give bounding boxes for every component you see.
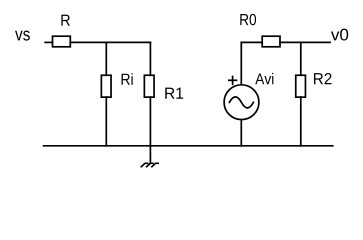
ground stem xyxy=(149,146,151,164)
label R xyxy=(61,15,70,26)
wire R2 bottom xyxy=(300,97,302,146)
wire R0 to v0 xyxy=(280,41,330,43)
wire R1 bottom xyxy=(149,97,151,146)
resistor R xyxy=(53,36,71,47)
label v0 xyxy=(331,29,348,41)
wire R to R1 branch xyxy=(70,41,150,43)
wire source to R0 xyxy=(241,41,262,43)
label R0 xyxy=(240,14,256,25)
label vs xyxy=(15,31,30,41)
ground rail xyxy=(44,145,333,147)
voltage source sine wave xyxy=(229,97,253,108)
wire source top vertical xyxy=(240,42,242,84)
resistor R1 xyxy=(144,75,154,97)
label R1 xyxy=(165,88,183,99)
resistor R0 xyxy=(262,36,280,47)
wire R2 branch top xyxy=(300,42,302,75)
wire Ri bottom xyxy=(105,97,107,146)
voltage source plus sign xyxy=(229,79,237,81)
voltage source Avi circle xyxy=(224,85,259,120)
label Avi xyxy=(255,73,273,84)
wire vs stub xyxy=(45,41,52,43)
wire Ri branch top xyxy=(105,42,107,75)
resistor Ri xyxy=(101,75,111,97)
ground hatches xyxy=(141,163,158,166)
resistor R2 xyxy=(296,75,306,97)
label Ri xyxy=(122,73,133,85)
wire source bottom xyxy=(240,120,242,146)
label R2 xyxy=(314,73,332,84)
wire R1 branch top xyxy=(149,42,151,75)
